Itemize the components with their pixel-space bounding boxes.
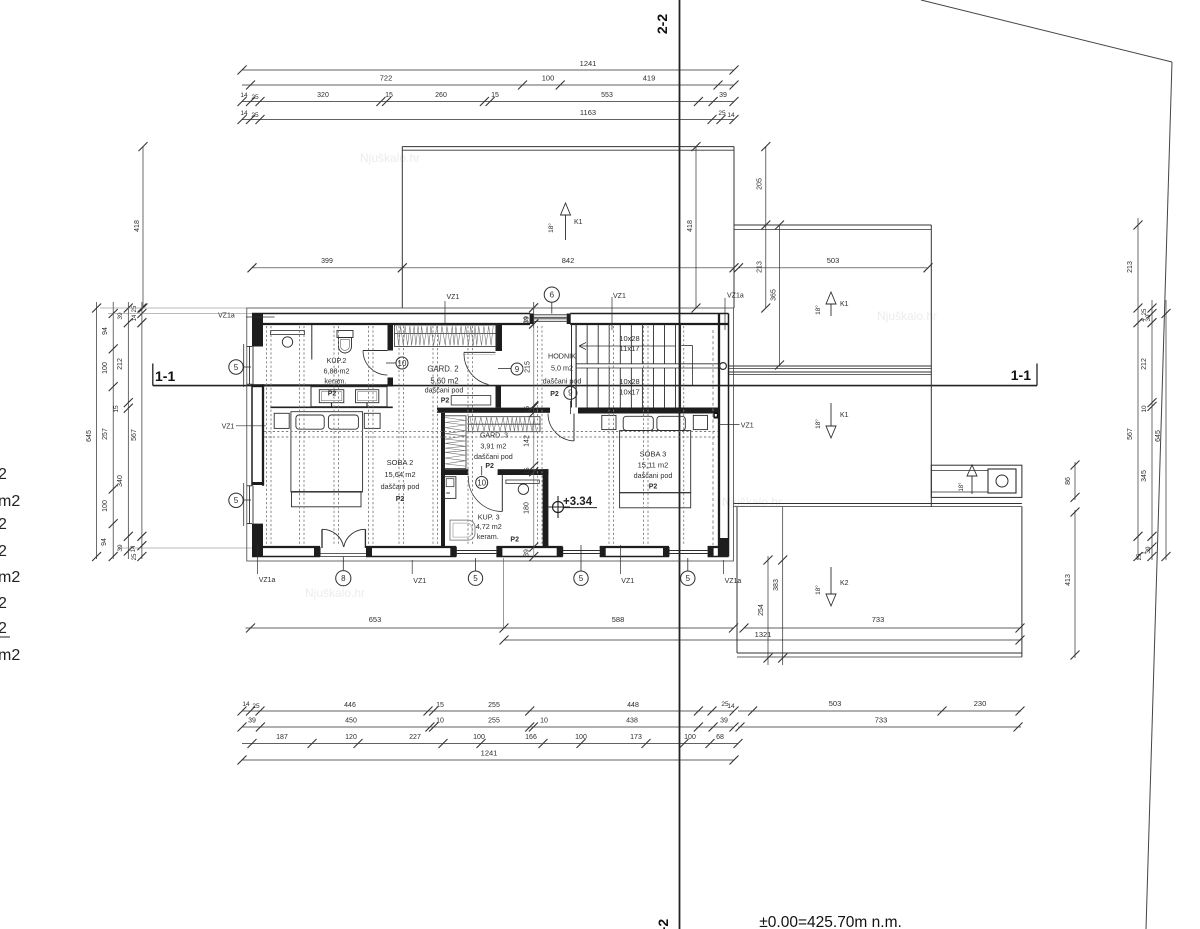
- dim row bottom D: [242, 759, 734, 761]
- double door bottom: [321, 529, 323, 548]
- ref circle 10 KUP2: [386, 362, 396, 364]
- svg-text:P2: P2: [550, 391, 559, 398]
- svg-text:±0.00=425.70m n.m.: ±0.00=425.70m n.m.: [759, 914, 902, 929]
- svg-text:daščani pod: daščani pod: [634, 471, 673, 480]
- exterior wall right: [728, 314, 730, 557]
- svg-text:daščani pod: daščani pod: [425, 386, 464, 395]
- svg-text:15: 15: [385, 92, 393, 99]
- dim leaders K2: [767, 556, 769, 665]
- svg-text:653: 653: [369, 615, 382, 624]
- svg-text:9: 9: [568, 389, 573, 398]
- svg-text:K1: K1: [574, 219, 583, 226]
- svg-text:2: 2: [0, 516, 7, 533]
- wardrobe hatch GARD small left: [444, 416, 466, 469]
- svg-text:142: 142: [524, 435, 531, 447]
- svg-text:25: 25: [251, 112, 259, 119]
- svg-text:10: 10: [540, 718, 548, 725]
- svg-text:14: 14: [131, 545, 137, 552]
- svg-text:166: 166: [525, 734, 537, 741]
- dim 413 K2: [1074, 510, 1076, 658]
- svg-text:KUP. 3: KUP. 3: [478, 513, 500, 522]
- svg-text:15: 15: [113, 405, 120, 413]
- svg-text:39: 39: [524, 549, 531, 557]
- section line 2-2: [679, 0, 681, 929]
- ref circle 8 bottom: [342, 557, 344, 570]
- svg-text:39: 39: [248, 718, 256, 725]
- svg-text:15: 15: [491, 92, 499, 99]
- bed SOBA2: [274, 413, 289, 428]
- svg-text:5,0 m2: 5,0 m2: [551, 364, 573, 373]
- svg-text:6,88 m2: 6,88 m2: [324, 366, 350, 375]
- svg-text:VZ1: VZ1: [447, 294, 460, 301]
- stair landing lines: [576, 363, 719, 365]
- dim row bottom A right: [738, 710, 1021, 712]
- svg-text:2-2: 2-2: [655, 919, 671, 929]
- dim 418 left: [142, 147, 144, 308]
- svg-text:keram.: keram.: [477, 532, 499, 541]
- svg-text:25: 25: [132, 553, 138, 560]
- wall GARD top: [437, 408, 550, 413]
- toilet KUP2: [337, 331, 353, 338]
- svg-text:2: 2: [0, 466, 7, 483]
- wall KUP2 bottom: [263, 384, 393, 386]
- svg-text:418: 418: [134, 220, 141, 232]
- wall KUP2 right: [388, 324, 394, 351]
- label VZ1 right wall: [714, 413, 719, 419]
- label VZ1 bottom 1: [411, 560, 413, 574]
- exterior wall corner blocks: [252, 547, 263, 557]
- svg-text:15,11 m2: 15,11 m2: [638, 460, 669, 469]
- label VZ1a bottom left: [257, 545, 259, 574]
- svg-text:2: 2: [0, 543, 7, 560]
- svg-text:P2: P2: [328, 391, 337, 398]
- door KUP3: [501, 475, 503, 512]
- dim row bottom B right: [738, 726, 1021, 728]
- svg-text:2-2: 2-2: [654, 14, 670, 34]
- svg-text:227: 227: [409, 734, 421, 741]
- svg-text:567: 567: [131, 429, 138, 441]
- svg-text:VZ1: VZ1: [613, 293, 626, 300]
- svg-text:257: 257: [102, 428, 109, 440]
- wardrobe hatch GARD2: [395, 325, 498, 347]
- right dim block: [1137, 218, 1139, 560]
- dim row bottom B: [242, 726, 734, 728]
- svg-text:94: 94: [102, 327, 109, 335]
- svg-text:1163: 1163: [580, 108, 596, 117]
- ref circle 5 bottom 3: [687, 558, 689, 571]
- svg-text:2: 2: [0, 620, 7, 637]
- svg-text:365: 365: [771, 289, 778, 301]
- svg-text:180: 180: [524, 502, 531, 514]
- exterior wall top: [252, 313, 530, 315]
- svg-text:m2: m2: [0, 647, 20, 664]
- svg-text:18°: 18°: [814, 305, 822, 315]
- svg-text:100: 100: [575, 734, 587, 741]
- svg-text:10x28: 10x28: [619, 334, 639, 343]
- svg-text:25: 25: [251, 94, 259, 101]
- svg-text:645: 645: [86, 430, 93, 442]
- svg-text:1241: 1241: [580, 59, 597, 68]
- svg-text:10: 10: [436, 718, 444, 725]
- svg-text:VZ1: VZ1: [621, 578, 634, 585]
- window bottom 3: [669, 550, 708, 552]
- ref circle 5 bottom 2: [580, 545, 582, 571]
- svg-text:5: 5: [473, 574, 478, 583]
- svg-text:15,64 m2: 15,64 m2: [384, 470, 415, 479]
- svg-text:100: 100: [102, 500, 109, 512]
- dim row top detail: [242, 101, 734, 103]
- dim 205-213-365 right: [765, 147, 767, 308]
- svg-text:14: 14: [240, 92, 248, 99]
- svg-text:733: 733: [872, 615, 885, 624]
- svg-text:+3.34: +3.34: [563, 496, 593, 508]
- svg-text:Njuškalo.hr: Njuškalo.hr: [305, 586, 365, 600]
- svg-text:418: 418: [687, 220, 694, 232]
- property boundary line right: [1146, 62, 1172, 929]
- svg-text:daščani pod: daščani pod: [381, 482, 420, 491]
- svg-text:2: 2: [0, 595, 7, 612]
- svg-text:320: 320: [317, 92, 329, 99]
- basin KUP2: [282, 337, 292, 347]
- svg-text:438: 438: [626, 718, 638, 725]
- svg-text:86: 86: [1065, 477, 1072, 485]
- ref circle 5 left 2: [244, 499, 252, 501]
- svg-text:39: 39: [117, 312, 124, 320]
- roof arrow K1 upper right: [826, 292, 836, 304]
- left leaders: [100, 307, 247, 309]
- svg-text:25: 25: [252, 703, 260, 710]
- svg-text:1321: 1321: [755, 630, 772, 639]
- roof arrow K1 lower right: [830, 403, 832, 426]
- svg-text:645: 645: [1155, 430, 1162, 442]
- ref circle 9 stair: [569, 401, 571, 414]
- dim row top 722-100-419: [242, 84, 734, 86]
- svg-text:5,60 m2: 5,60 m2: [430, 377, 458, 386]
- dashed beam lines vertical: [266, 326, 268, 546]
- svg-text:daščani pod: daščani pod: [474, 452, 513, 461]
- svg-text:94: 94: [101, 538, 108, 546]
- label VZ1 top 1: [444, 301, 446, 324]
- ref circle 6 top: [551, 302, 553, 313]
- stair well rail: [681, 345, 692, 347]
- wall GARD2 stub lower: [496, 386, 502, 408]
- label VZ1 bottom 2: [619, 545, 621, 574]
- svg-text:25: 25: [132, 305, 138, 312]
- wall KUP3 top: [441, 469, 468, 475]
- svg-text:205: 205: [757, 178, 764, 190]
- roof outline upper: [402, 146, 734, 148]
- svg-text:P2: P2: [649, 484, 658, 491]
- label VZ1 top 2: [611, 297, 613, 330]
- svg-text:100: 100: [684, 734, 696, 741]
- svg-text:VZ1a: VZ1a: [725, 578, 742, 585]
- svg-text:5: 5: [234, 496, 239, 505]
- svg-text:215: 215: [525, 361, 532, 373]
- svg-text:P2: P2: [396, 496, 405, 503]
- chimney: [988, 469, 1016, 493]
- svg-text:6: 6: [550, 290, 555, 299]
- exterior wall left: [252, 314, 263, 347]
- svg-text:10: 10: [1141, 405, 1148, 413]
- door stair bottom: [573, 414, 575, 442]
- svg-text:SOBA 2: SOBA 2: [387, 458, 414, 467]
- svg-text:503: 503: [829, 699, 842, 708]
- roof arrow K2 down: [830, 567, 832, 594]
- roof arrow K1 up: [561, 203, 571, 215]
- svg-text:GARD. 2: GARD. 2: [427, 365, 458, 374]
- bed SOBA3: [602, 415, 616, 429]
- svg-text:K1: K1: [840, 412, 849, 419]
- svg-text:KUP.2: KUP.2: [327, 356, 347, 365]
- label VZ1a top right: [724, 298, 726, 330]
- svg-text:213: 213: [757, 261, 764, 273]
- svg-text:345: 345: [1141, 470, 1148, 482]
- svg-text:P2: P2: [485, 463, 494, 470]
- dim chain hall vertical: [533, 302, 535, 556]
- wall stair left: [571, 324, 573, 408]
- svg-text:SOBA 3: SOBA 3: [640, 450, 667, 459]
- wall stair bottom: [578, 408, 720, 414]
- svg-text:VZ1: VZ1: [222, 423, 235, 430]
- ref circle 5 bottom 1: [475, 558, 477, 571]
- dim 733 right: [744, 627, 1020, 629]
- svg-text:5: 5: [686, 574, 691, 583]
- svg-text:173: 173: [630, 734, 642, 741]
- property boundary line top: [921, 0, 1172, 62]
- svg-text:3,91 m2: 3,91 m2: [480, 442, 506, 451]
- window bottom 2: [563, 550, 600, 552]
- svg-text:VZ1: VZ1: [741, 423, 754, 430]
- ref circle 10 KUP3: [481, 466, 483, 475]
- svg-text:399: 399: [321, 258, 333, 265]
- svg-text:P2: P2: [510, 536, 519, 543]
- svg-text:212: 212: [117, 358, 124, 370]
- wall GARD-KUP3 left: [441, 413, 445, 547]
- svg-text:daščani pod: daščani pod: [543, 377, 582, 386]
- svg-text:VZ1a: VZ1a: [727, 293, 744, 300]
- svg-text:K1: K1: [840, 301, 849, 308]
- svg-text:254: 254: [758, 604, 765, 616]
- svg-text:450: 450: [345, 718, 357, 725]
- chimney arrow 18: [967, 465, 977, 476]
- dim 399-842: [252, 267, 734, 269]
- wall KUP3 right: [543, 469, 549, 547]
- svg-text:18°: 18°: [547, 223, 555, 233]
- svg-text:11x17: 11x17: [620, 344, 640, 353]
- svg-text:39: 39: [1145, 314, 1152, 322]
- ref circle 9 hall: [498, 368, 511, 370]
- svg-text:10x17: 10x17: [619, 388, 639, 397]
- dim 418 center: [695, 147, 697, 308]
- svg-text:842: 842: [562, 256, 575, 265]
- dim row bottom C: [242, 743, 738, 745]
- svg-text:383: 383: [773, 579, 780, 591]
- dashed roof overhang right: [712, 330, 714, 545]
- svg-text:255: 255: [488, 718, 500, 725]
- svg-text:K2: K2: [840, 580, 849, 587]
- svg-text:10: 10: [398, 359, 407, 368]
- svg-text:15: 15: [524, 406, 531, 414]
- svg-text:14: 14: [240, 110, 248, 117]
- svg-text:5: 5: [579, 574, 584, 583]
- svg-text:18°: 18°: [814, 419, 822, 429]
- door GARD2: [464, 351, 496, 353]
- shelf KUP3: [506, 480, 539, 483]
- svg-text:120: 120: [345, 734, 357, 741]
- entrance door: [530, 314, 534, 325]
- door KUP2: [363, 350, 388, 352]
- svg-text:10x28: 10x28: [619, 377, 639, 386]
- svg-text:503: 503: [827, 256, 840, 265]
- svg-text:m2: m2: [0, 569, 20, 586]
- shower partition KUP2: [311, 325, 313, 360]
- svg-text:39: 39: [720, 718, 728, 725]
- roof K2 outline: [736, 507, 738, 653]
- dim 653-588: [246, 627, 734, 629]
- svg-text:8: 8: [341, 574, 346, 583]
- dim row top overall wall: [242, 119, 734, 121]
- svg-text:keram.: keram.: [324, 376, 346, 385]
- toilet KUP3: [450, 520, 475, 540]
- dim 1321: [504, 639, 1021, 641]
- svg-text:m2: m2: [0, 493, 20, 510]
- svg-text:68: 68: [716, 734, 724, 741]
- roof eave lines middle: [734, 503, 1022, 505]
- dim row top 1241: [242, 69, 734, 71]
- window left 1: [249, 347, 251, 385]
- svg-text:722: 722: [380, 74, 393, 83]
- facade outline: [247, 308, 734, 561]
- svg-text:GARD. 3: GARD. 3: [480, 433, 508, 440]
- svg-text:419: 419: [643, 74, 656, 83]
- svg-text:4,72 m2: 4,72 m2: [476, 522, 502, 531]
- svg-text:39: 39: [719, 92, 727, 99]
- svg-text:448: 448: [627, 702, 639, 709]
- dim 503 right top: [739, 267, 929, 269]
- svg-text:1241: 1241: [481, 749, 498, 758]
- stair walk line up: [580, 345, 676, 347]
- svg-text:VZ1: VZ1: [413, 578, 426, 585]
- svg-text:230: 230: [974, 699, 987, 708]
- dim 39 entrance: [533, 302, 535, 328]
- dim row bottom A: [242, 710, 734, 712]
- label VZ1a bottom right: [723, 560, 725, 574]
- svg-text:255: 255: [488, 702, 500, 709]
- cabinet KUP3: [444, 477, 456, 499]
- svg-text:100: 100: [102, 362, 109, 374]
- svg-text:553: 553: [601, 92, 613, 99]
- wardrobe hatch GARD small top: [468, 417, 540, 432]
- exterior wall bottom: [252, 556, 320, 558]
- vanity KUP2: [311, 387, 387, 407]
- svg-text:567: 567: [1127, 428, 1134, 440]
- wall GARD2 stub right: [496, 325, 503, 351]
- svg-text:14: 14: [132, 314, 138, 321]
- svg-text:588: 588: [612, 615, 625, 624]
- svg-text:25: 25: [1142, 308, 1148, 315]
- svg-text:413: 413: [1065, 574, 1072, 586]
- svg-text:10: 10: [477, 478, 486, 487]
- svg-text:39: 39: [524, 316, 531, 324]
- window left 2: [249, 486, 251, 524]
- stairs: [586, 324, 588, 364]
- svg-text:15: 15: [524, 467, 531, 475]
- section line 1-1: [153, 385, 1037, 387]
- svg-text:Njuškalo.hr: Njuškalo.hr: [877, 309, 937, 323]
- svg-text:15: 15: [436, 702, 444, 709]
- svg-text:213: 213: [1127, 261, 1134, 273]
- chimney strip: [931, 465, 1022, 497]
- svg-text:P2: P2: [441, 398, 450, 405]
- window bottom 1: [456, 550, 496, 552]
- svg-text:260: 260: [435, 92, 447, 99]
- roof ridge lines: [729, 365, 931, 367]
- basin KUP3: [518, 484, 528, 494]
- svg-text:187: 187: [276, 734, 288, 741]
- door circle right wall: [720, 363, 727, 370]
- svg-text:100: 100: [473, 734, 485, 741]
- dashed beam lines horizontal: [264, 431, 718, 433]
- svg-text:1-1: 1-1: [155, 368, 175, 384]
- svg-text:14: 14: [727, 112, 735, 119]
- svg-text:14: 14: [242, 701, 250, 708]
- mirror KUP2: [271, 331, 305, 335]
- svg-text:14: 14: [727, 703, 735, 710]
- ref circle 5 left 1: [244, 366, 252, 368]
- svg-text:25: 25: [1137, 553, 1143, 560]
- roof right wing outline: [734, 224, 931, 226]
- svg-text:1-1: 1-1: [1011, 367, 1031, 383]
- level marker +3.34: [553, 502, 564, 513]
- svg-text:5: 5: [234, 363, 239, 372]
- svg-text:VZ1a: VZ1a: [259, 577, 276, 584]
- dim 86 chimney: [1074, 462, 1076, 500]
- svg-text:733: 733: [875, 716, 888, 725]
- svg-text:39: 39: [1145, 546, 1152, 554]
- svg-text:100: 100: [542, 74, 555, 83]
- svg-text:446: 446: [344, 702, 356, 709]
- svg-text:212: 212: [1141, 358, 1148, 370]
- svg-text:18°: 18°: [959, 482, 965, 492]
- svg-text:HODNIK: HODNIK: [548, 352, 576, 361]
- svg-text:9: 9: [515, 365, 520, 374]
- wall under vanity: [270, 406, 393, 408]
- svg-text:25: 25: [718, 110, 726, 117]
- svg-text:Njuškalo.hr: Njuškalo.hr: [360, 151, 420, 165]
- svg-text:340: 340: [117, 475, 124, 487]
- svg-text:18°: 18°: [814, 585, 822, 595]
- left dim block: [96, 302, 98, 559]
